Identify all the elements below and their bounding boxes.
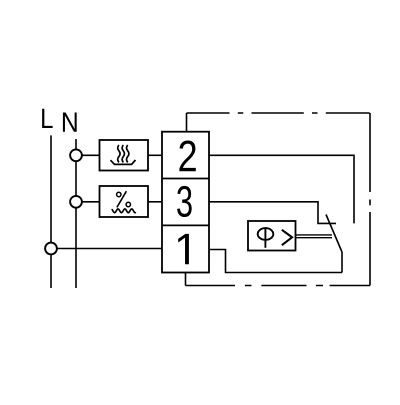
hygrostat comparator box U1 bbox=[248, 221, 296, 251]
terminal 2 label bbox=[179, 140, 195, 171]
control double line from comparator to switch bbox=[296, 234, 333, 236]
terminal 1 label bbox=[178, 234, 189, 264]
wire switch common to terminal 1 bbox=[209, 250, 342, 273]
wire N to percent box bbox=[76, 201, 100, 203]
terminal divider 3/1 bbox=[162, 224, 209, 226]
phi label (drawn) bbox=[258, 228, 274, 240]
wire percent box to terminal 3 bbox=[148, 201, 162, 203]
node L label bbox=[42, 109, 53, 128]
terminal block outline bbox=[162, 132, 209, 273]
enclosure dashed bottom border bbox=[186, 285, 371, 287]
percent icon water wave bbox=[112, 209, 135, 213]
switch common drop bbox=[341, 252, 343, 273]
terminal divider 2/3 bbox=[162, 178, 209, 180]
stub terminal block top to enclosure bbox=[186, 113, 188, 132]
percent icon slash bbox=[117, 191, 127, 207]
wire terminal 2 to switch throw (right then down) bbox=[209, 155, 354, 223]
wire L vertical bbox=[50, 135, 52, 288]
terminal circle on N (to heater) bbox=[70, 149, 82, 161]
wire L to terminal 1 bbox=[51, 248, 162, 250]
enclosure dashed right border bbox=[369, 113, 371, 286]
terminal 3 label bbox=[177, 186, 192, 217]
percent icon upper circle bbox=[117, 192, 121, 196]
wire terminal 3 to switch fixed contact bbox=[209, 202, 336, 224]
terminal circle on N (to percent) bbox=[70, 196, 82, 208]
node N label bbox=[63, 113, 77, 132]
terminal circle on L bbox=[45, 243, 57, 255]
wire N to heater box bbox=[76, 154, 100, 156]
wire heater box to terminal 2 bbox=[148, 154, 162, 156]
heater symbol box bbox=[100, 140, 149, 171]
switch movable contact (diagonal) bbox=[326, 215, 342, 253]
percent (humidity) symbol box bbox=[100, 186, 149, 217]
greater-than label (drawn) bbox=[282, 230, 292, 245]
percent icon lower circle bbox=[126, 202, 130, 206]
enclosure dashed top border bbox=[187, 112, 371, 114]
heater icon dish bbox=[111, 160, 136, 164]
stub terminal block bottom to enclosure bbox=[185, 273, 187, 286]
wire N vertical bbox=[75, 139, 77, 288]
heater icon steam lines bbox=[118, 145, 120, 162]
